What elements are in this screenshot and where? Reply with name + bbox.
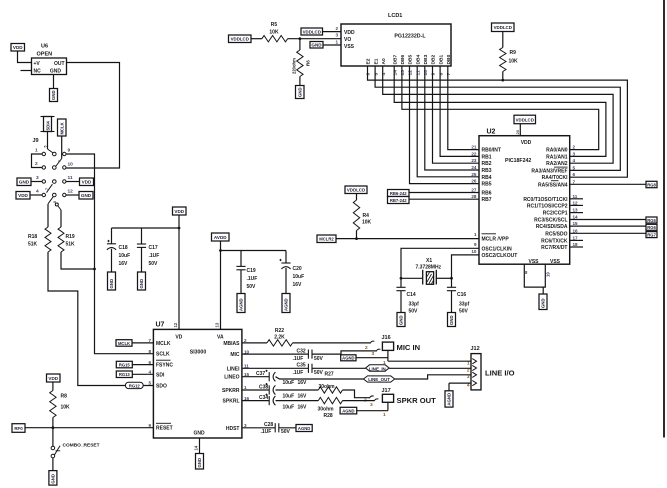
svg-text:VDD: VDD [344, 30, 355, 36]
wire C32 to J16 pin3 [312, 349, 380, 354]
svg-text:.1UF: .1UF [261, 429, 272, 435]
svg-text:LINE_OUT: LINE_OUT [368, 377, 390, 382]
node RG12 (oval label on SDO wire) [125, 382, 143, 388]
svg-text:RC4/SDI/SDA: RC4/SDI/SDA [536, 224, 568, 230]
node LINE_OUT label [276, 376, 395, 382]
node junction R8/RESET [52, 426, 55, 429]
svg-text:1: 1 [335, 40, 338, 45]
power VDD (VD rail) [173, 207, 187, 215]
svg-text:16V: 16V [298, 404, 308, 410]
ground AGND (C20) [282, 294, 290, 313]
svg-text:10K: 10K [269, 30, 279, 36]
svg-text:33pf: 33pf [459, 302, 470, 308]
svg-text:12: 12 [68, 189, 74, 195]
svg-text:E2: E2 [366, 58, 372, 64]
wire R28 to J17 pin3 [343, 399, 379, 401]
wire RG13 to U7 SDI [132, 373, 153, 375]
wire C28 to AGND [279, 427, 296, 429]
resistor R5 10K [262, 22, 288, 42]
wire LCD DB4 to U2 RB4 [417, 66, 479, 177]
wire LCD DB2 to U2 RB2 [433, 66, 480, 163]
ground (C18) [108, 272, 116, 290]
svg-text:2: 2 [365, 345, 368, 351]
svg-text:LINEI: LINEI [227, 366, 240, 372]
svg-text:R27: R27 [325, 372, 334, 378]
wire J9 pin9 to SCLK net [66, 154, 153, 354]
svg-text:4: 4 [573, 158, 576, 163]
svg-text:RESET: RESET [156, 426, 173, 432]
svg-text:R5: R5 [271, 22, 278, 28]
node MCLR2 label [317, 235, 336, 243]
ground (LCD VSS) [310, 42, 323, 49]
svg-text:OSC1/CLKIN: OSC1/CLKIN [482, 246, 513, 252]
svg-text:RB6-242: RB6-242 [390, 191, 407, 196]
svg-text:220ohm: 220ohm [292, 58, 297, 74]
svg-text:25: 25 [471, 172, 477, 177]
svg-text:RC6/TX/CK: RC6/TX/CK [541, 238, 568, 244]
node junction SCLK/R19 [93, 268, 96, 271]
svg-text:HDST: HDST [226, 426, 240, 432]
svg-text:.1UF: .1UF [293, 370, 304, 376]
wire RESET net to U7 pin9 [25, 427, 153, 429]
svg-text:U2: U2 [487, 129, 496, 136]
svg-text:MCLK: MCLK [118, 341, 130, 346]
node RG15 [116, 361, 132, 368]
wire LINE_IN to J12 pin2 [389, 367, 471, 369]
wire J9 pin12 to GND [66, 194, 79, 196]
svg-text:1: 1 [467, 361, 470, 367]
svg-text:VD: VD [175, 334, 182, 340]
svg-text:RC2/CCP1: RC2/CCP1 [543, 211, 568, 217]
svg-text:4: 4 [381, 73, 387, 76]
wire VDD to J9 pin4 [30, 194, 42, 196]
svg-text:MCLK: MCLK [60, 122, 65, 134]
svg-text:2: 2 [467, 367, 470, 373]
svg-text:RC3/SCK/SCL: RC3/SCK/SCL [534, 218, 567, 224]
power VDD (R8) [47, 374, 61, 382]
svg-text:GND: GND [193, 431, 205, 437]
svg-text:21: 21 [471, 145, 477, 150]
svg-text:RC7/RX/DT: RC7/RX/DT [541, 245, 567, 251]
node RG8 [646, 181, 657, 187]
wire VDDLCD to LCD VDD [323, 31, 342, 33]
wire LCD DB1 to U2 RB1 [440, 66, 479, 156]
crystal X1 7.3728MHz [401, 258, 452, 285]
svg-text:VSS: VSS [528, 259, 539, 265]
svg-text:3: 3 [335, 33, 338, 38]
resistor R28 30ohm [276, 397, 343, 419]
power VDDLCD (R9) [492, 23, 515, 32]
ground AGND (J12) [445, 391, 453, 407]
wire U2 RC3 to RG5 [570, 219, 646, 221]
svg-text:7: 7 [45, 188, 49, 190]
svg-text:17: 17 [573, 235, 579, 240]
svg-text:GND: GND [139, 279, 144, 289]
svg-text:C19: C19 [247, 268, 256, 274]
svg-text:R28: R28 [324, 413, 333, 419]
wire LCD A0 to U2 RA2 [383, 66, 613, 163]
svg-text:6: 6 [573, 172, 576, 177]
svg-text:2: 2 [35, 161, 38, 167]
svg-text:VDDLCD: VDDLCD [303, 29, 321, 34]
svg-text:SDO: SDO [156, 384, 167, 390]
svg-text:RA1/AN1: RA1/AN1 [546, 154, 568, 160]
svg-text:A0: A0 [381, 58, 387, 65]
wire R22 to J16 pin2 [293, 341, 375, 343]
wire U2 pin12 stub [570, 204, 583, 206]
svg-text:C14: C14 [407, 292, 416, 298]
ground AGND (C19) [237, 294, 245, 313]
svg-text:DB7: DB7 [392, 54, 398, 64]
svg-text:DB2: DB2 [431, 54, 437, 64]
svg-text:51K: 51K [28, 242, 38, 248]
svg-text:GND: GND [51, 90, 56, 100]
svg-text:GND: GND [197, 458, 202, 468]
power VDDLCD (R4) [345, 186, 367, 194]
svg-text:14: 14 [194, 445, 199, 450]
svg-text:VDD: VDD [48, 376, 58, 381]
svg-text:16V: 16V [298, 380, 308, 386]
ground AGND (J17) [340, 407, 357, 414]
svg-text:RB0/INT: RB0/INT [482, 148, 501, 154]
svg-text:LINE_IN: LINE_IN [369, 366, 386, 371]
svg-text:LCD1: LCD1 [388, 13, 402, 19]
svg-text:10: 10 [471, 249, 477, 254]
wire RB6-242 to U2 RB6 [409, 192, 479, 194]
svg-text:R9: R9 [510, 50, 517, 56]
svg-text:11: 11 [415, 70, 421, 75]
svg-text:GND: GND [50, 69, 62, 75]
svg-text:7.3728MHz: 7.3728MHz [416, 265, 442, 271]
svg-text:.1UF: .1UF [247, 276, 258, 282]
svg-text:51K: 51K [66, 242, 76, 248]
capacitor C38 10uF 16V [242, 383, 307, 399]
wire U2 pin18 stub [570, 246, 583, 248]
svg-text:10: 10 [423, 70, 429, 76]
svg-text:C20: C20 [293, 266, 302, 272]
wire U7 GND pin14 [199, 438, 201, 454]
svg-text:3: 3 [573, 151, 576, 156]
svg-text:C34: C34 [259, 395, 268, 401]
svg-text:VDDLCD: VDDLCD [494, 25, 512, 30]
svg-text:14: 14 [392, 70, 398, 76]
svg-text:J17: J17 [382, 388, 391, 394]
resistor R6 220ohm [292, 39, 311, 86]
svg-text:RB7-242: RB7-242 [390, 198, 407, 203]
node junction R5/R6 [299, 37, 302, 40]
wire U6 GND [53, 75, 55, 89]
wire LCD DB5 to U2 RB5 [410, 66, 480, 184]
svg-text:16: 16 [573, 228, 579, 233]
capacitor C20 10uF 16V [279, 251, 304, 294]
power VDD (U6 supply) [11, 44, 25, 52]
svg-text:AGND: AGND [447, 393, 452, 406]
node RG6 [646, 224, 657, 230]
svg-text:3: 3 [467, 374, 470, 380]
wire J17 pin1 to AGND [357, 402, 388, 410]
svg-text:VDD: VDD [174, 209, 184, 214]
node junction R9/E2 [501, 79, 504, 82]
svg-text:GND: GND [109, 279, 114, 289]
svg-text:11: 11 [68, 175, 73, 181]
svg-text:13: 13 [573, 208, 579, 213]
ground AGND (J16) [341, 355, 356, 361]
svg-text:14: 14 [573, 215, 579, 220]
sheet right border [663, 0, 665, 438]
wire VDD rail [112, 215, 180, 329]
svg-text:2: 2 [573, 145, 576, 150]
svg-text:13: 13 [215, 322, 220, 327]
svg-text:MCLR2: MCLR2 [319, 237, 334, 242]
LCD module LCD1 PG12232D-L [335, 13, 452, 76]
svg-text:16V: 16V [298, 393, 308, 399]
svg-text:VDDLCD: VDDLCD [231, 37, 249, 42]
svg-text:R8: R8 [61, 394, 68, 400]
svg-text:SPKR OUT: SPKR OUT [397, 396, 437, 405]
svg-text:U6: U6 [41, 44, 48, 50]
wire U2 OSC2 to crystal [452, 255, 480, 278]
svg-text:RB2: RB2 [482, 161, 492, 167]
svg-text:12: 12 [173, 322, 178, 327]
capacitor C18 10uF 16V [107, 228, 130, 272]
wire LCD DB0 to U2 RB0 [448, 66, 479, 150]
svg-text:3: 3 [372, 351, 375, 357]
capacitor C34 10uF 16V [242, 394, 307, 411]
svg-text:20: 20 [515, 129, 520, 134]
node RF0 label [12, 424, 25, 433]
node MCLK label (U7) [116, 340, 132, 347]
svg-text:RA0/AN0: RA0/AN0 [546, 148, 568, 154]
switch COMBO_RESET [51, 428, 100, 471]
svg-text:28: 28 [471, 194, 477, 199]
svg-text:.1UF: .1UF [149, 253, 160, 259]
svg-text:50V: 50V [281, 429, 291, 435]
node RG7 [646, 232, 657, 238]
svg-text:R22: R22 [275, 328, 284, 334]
svg-text:3: 3 [36, 175, 39, 181]
svg-text:C35: C35 [297, 363, 306, 369]
svg-text:2.2K: 2.2K [274, 335, 285, 341]
svg-text:26: 26 [471, 179, 477, 184]
wire MCLK label to J9 pin6 [61, 136, 63, 159]
svg-text:5: 5 [43, 146, 47, 148]
node RB6-242 [388, 190, 410, 197]
svg-text:23: 23 [471, 158, 477, 163]
svg-text:9: 9 [474, 242, 477, 247]
node junction VDD rail [178, 227, 181, 230]
svg-text:VDD: VDD [82, 180, 92, 185]
svg-text:30ohm: 30ohm [319, 384, 336, 390]
svg-text:RB5: RB5 [482, 182, 492, 188]
node RB7-242 [388, 197, 410, 204]
wire U2 pin17 stub [570, 239, 583, 241]
svg-text:6: 6 [57, 160, 61, 162]
svg-text:18: 18 [573, 242, 579, 247]
wire MCLK to U7 pin7 [132, 342, 153, 344]
ground (C14) [397, 313, 405, 327]
svg-text:PG12232D-L: PG12232D-L [394, 34, 426, 40]
wire LCD DB3 to U2 RB3 [425, 66, 479, 170]
wire VDD to U6 +V [18, 51, 32, 63]
svg-text:C17: C17 [149, 245, 158, 251]
svg-text:DB4: DB4 [415, 54, 421, 64]
wire R19 to SCLK net [61, 252, 95, 269]
svg-text:PIC18F242: PIC18F242 [505, 158, 531, 164]
svg-text:GND: GND [51, 474, 56, 484]
svg-text:DB3: DB3 [423, 54, 429, 64]
svg-text:8: 8 [148, 349, 151, 354]
svg-text:10K: 10K [362, 220, 372, 226]
node RG5 [646, 217, 657, 223]
ground (U7) [196, 454, 204, 470]
node LINE_IN label [312, 365, 389, 372]
svg-text:RA2/AN2: RA2/AN2 [546, 161, 568, 167]
svg-text:SCLK: SCLK [156, 352, 170, 358]
svg-text:U7: U7 [156, 322, 165, 329]
svg-text:MCLR /VPP: MCLR /VPP [482, 237, 510, 243]
svg-text:GND: GND [541, 298, 546, 308]
node RG13 [116, 371, 132, 378]
svg-text:VDDLCD: VDDLCD [347, 188, 365, 193]
svg-text:AGND: AGND [239, 298, 244, 311]
svg-text:50V: 50V [314, 370, 324, 376]
ground (U2 VSS) [539, 294, 547, 310]
connector J16 MIC IN [365, 335, 420, 366]
resistor R8 10K [50, 382, 70, 428]
svg-text:10uF: 10uF [283, 393, 295, 399]
svg-text:12: 12 [573, 200, 579, 205]
svg-text:FSYNC: FSYNC [156, 363, 173, 369]
svg-text:16V: 16V [119, 261, 129, 267]
wire U2 pin13 stub [570, 212, 583, 214]
svg-text:24: 24 [471, 165, 477, 170]
jumper header J9 [32, 138, 74, 210]
resistor R19 51K [58, 210, 75, 252]
connector J12 LINE I/O [467, 346, 515, 390]
svg-text:C28: C28 [264, 422, 273, 428]
svg-text:7: 7 [446, 73, 452, 76]
svg-text:RG13: RG13 [119, 372, 131, 377]
wire LINE_OUT to J12 pin3 [395, 375, 471, 379]
wire R18 to SDO net [48, 252, 153, 386]
wire RG15 to U7 FSYNC [132, 364, 153, 366]
ground (J9 pin12) [79, 192, 93, 200]
node junction OSC1/C14 [400, 277, 403, 280]
wire LCD DB6 to U2 RA0 [402, 66, 599, 150]
svg-text:6: 6 [366, 73, 372, 76]
capacitor C14 33pf 50V [396, 278, 419, 314]
svg-text:SDI4: SDI4 [45, 121, 50, 131]
svg-text:DB6: DB6 [400, 54, 406, 64]
svg-text:12: 12 [408, 70, 414, 76]
svg-text:VO: VO [344, 37, 351, 43]
svg-text:VSS: VSS [344, 44, 355, 50]
svg-text:10K: 10K [509, 59, 519, 65]
svg-text:AGND: AGND [342, 356, 354, 361]
svg-text:10uF: 10uF [119, 253, 131, 259]
svg-text:AVDD: AVDD [214, 235, 227, 240]
svg-text:J12: J12 [471, 346, 480, 352]
ground (C16) [448, 313, 456, 327]
svg-text:33pf: 33pf [409, 302, 420, 308]
wire GND to LCD VSS [323, 44, 341, 46]
ground AGND (C28/HDST) [296, 425, 312, 432]
svg-text:C16: C16 [457, 292, 466, 298]
capacitor C35 .1uF 50V [242, 363, 324, 377]
power VDDLCD (LCD pin2) [301, 28, 323, 35]
svg-text:RB6: RB6 [482, 191, 492, 197]
svg-text:5: 5 [573, 165, 576, 170]
wire AVDD rail [221, 241, 287, 329]
svg-text:RG7: RG7 [647, 232, 656, 237]
svg-text:R4: R4 [363, 213, 370, 219]
node junction OSC2/C16 [450, 277, 453, 280]
node junction AVDD rail [219, 249, 222, 252]
svg-text:11: 11 [573, 194, 578, 199]
svg-text:27: 27 [471, 188, 477, 193]
svg-text:COMBO_RESET: COMBO_RESET [63, 443, 100, 449]
svg-text:1: 1 [474, 232, 477, 237]
svg-text:MBIAS: MBIAS [223, 341, 240, 347]
svg-text:MIC: MIC [230, 352, 240, 358]
node SDI4 (rotated net label) [41, 117, 55, 132]
svg-text:GND: GND [19, 180, 30, 185]
wire U6 OUT to J9 pin10 [66, 63, 119, 169]
wire MCLR net to U2 pin1 [336, 238, 479, 240]
wire U2 RC5 to RG7 [570, 232, 646, 234]
svg-text:R19: R19 [66, 234, 75, 240]
svg-text:RG5: RG5 [647, 218, 656, 223]
power VDD (J9 pin4) [16, 192, 30, 200]
svg-text:RC5/SDO: RC5/SDO [545, 231, 567, 237]
svg-text:NC: NC [34, 69, 42, 75]
svg-text:10K: 10K [61, 405, 71, 411]
wire SDI4 to J9 pin5 [47, 132, 49, 150]
ground (COMBO_RESET) [49, 471, 57, 486]
ground (J9 pin3) [17, 178, 31, 186]
svg-text:VA: VA [217, 334, 224, 340]
svg-text:13: 13 [400, 70, 406, 76]
svg-text:E1: E1 [373, 58, 379, 64]
svg-text:10uF: 10uF [293, 274, 305, 280]
connector J17 SPKR OUT [364, 388, 436, 418]
wire J12 pin4 to AGND [449, 383, 471, 391]
svg-text:DB5: DB5 [408, 54, 414, 64]
svg-text:SDI: SDI [156, 372, 165, 378]
capacitor C19 .1uF 50V [236, 251, 257, 294]
svg-text:5: 5 [373, 73, 379, 76]
svg-text:1: 1 [383, 412, 386, 418]
svg-text:OSC2/CLKOUT: OSC2/CLKOUT [482, 253, 518, 259]
svg-text:R18: R18 [28, 234, 37, 240]
node junction R4/MCLR [355, 237, 358, 240]
svg-text:MCLK: MCLK [156, 341, 171, 347]
svg-text:50V: 50V [314, 356, 324, 362]
svg-text:VDDLCD: VDDLCD [516, 117, 534, 122]
svg-text:GND: GND [297, 87, 302, 97]
svg-text:2: 2 [335, 26, 338, 31]
svg-text:DB1: DB1 [438, 54, 444, 64]
codec U7 SI3000 [148, 322, 249, 451]
wire VDDLCD to R5 [251, 38, 262, 40]
svg-text:22: 22 [471, 151, 477, 156]
svg-text:RB1: RB1 [482, 154, 492, 160]
wire U2 RA5 to RG8 [570, 183, 646, 185]
resistor R27 30ohm [276, 372, 343, 394]
svg-text:RG12: RG12 [129, 383, 141, 388]
ground (C17) [138, 272, 146, 290]
wire U2 OSC1 to crystal [401, 248, 479, 278]
